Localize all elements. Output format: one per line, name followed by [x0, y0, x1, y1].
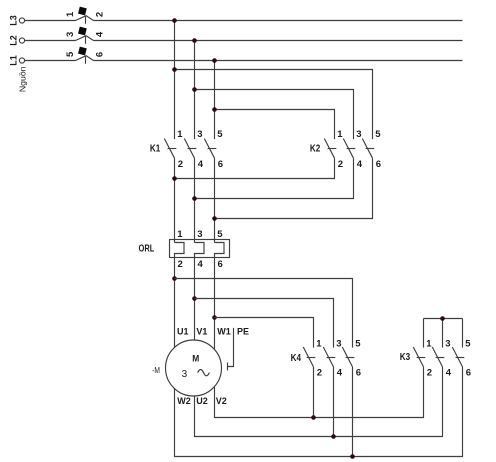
svg-text:6: 6	[356, 367, 361, 378]
svg-text:3: 3	[65, 32, 76, 37]
svg-text:L2: L2	[9, 35, 19, 46]
wire PE stub	[228, 328, 234, 367]
svg-text:K3: K3	[400, 352, 411, 363]
breaker pole 3-4 (L2)	[25, 27, 106, 44]
svg-text:6: 6	[95, 52, 106, 57]
wire W2 bus	[175, 367, 463, 457]
svg-text:6: 6	[218, 259, 223, 270]
svg-text:5: 5	[217, 229, 223, 240]
svg-text:M: M	[192, 353, 199, 364]
svg-text:1: 1	[316, 339, 322, 350]
contact K1 pole 1 (pins 1-2)	[164, 129, 183, 170]
wire L3 rail	[94, 20, 463, 22]
node V2/K4	[311, 415, 316, 420]
wire K2 pole3 output merge	[215, 158, 373, 218]
wire K2 pole1 output merge	[175, 158, 335, 178]
svg-text:5: 5	[465, 339, 471, 350]
svg-text:K4: K4	[291, 353, 302, 364]
svg-text:W1: W1	[217, 327, 231, 337]
svg-text:1: 1	[177, 229, 183, 240]
node motor feed V1	[192, 296, 197, 301]
svg-text:1: 1	[337, 129, 343, 140]
svg-text:4: 4	[198, 259, 204, 270]
svg-text:3: 3	[445, 339, 450, 350]
svg-text:5: 5	[217, 129, 223, 140]
node L2 tap	[192, 38, 197, 43]
svg-text:Nguồn: Nguồn	[18, 66, 28, 92]
svg-text:6: 6	[218, 159, 223, 170]
contact K4 pole 2 (pins 3-4)	[323, 339, 343, 379]
wire U2 bus	[195, 367, 443, 437]
svg-text:ORL: ORL	[139, 244, 155, 255]
motor sine symbol	[198, 369, 210, 375]
svg-text:K2: K2	[310, 144, 321, 155]
svg-text:6: 6	[376, 159, 381, 170]
node K3 star	[440, 316, 445, 321]
wire L3 branch to K2	[175, 70, 373, 140]
wire K4 pole2 to U2 bus	[333, 367, 335, 437]
svg-text:5: 5	[65, 51, 76, 57]
wire K3 pin1 feed	[423, 319, 425, 348]
svg-text:4: 4	[446, 367, 452, 378]
svg-text:2: 2	[338, 159, 343, 170]
svg-text:V1: V1	[196, 327, 207, 337]
wire L2 branch to K2	[195, 90, 354, 140]
terminal L1	[9, 55, 25, 66]
node K2 feed	[212, 107, 217, 112]
svg-text:2: 2	[95, 12, 106, 17]
contact K3 pole 1 (pins 1-2)	[413, 339, 432, 379]
motor frame terminal	[227, 363, 229, 371]
motor M circle	[166, 340, 222, 396]
node L1 tap	[212, 58, 217, 63]
ORL heater pole 3 (pins 5-6)	[215, 229, 225, 350]
wire L3 drop to K1	[174, 21, 176, 140]
breaker pole 5-6 (L1)	[25, 47, 106, 64]
svg-text:5: 5	[375, 129, 381, 140]
contact K3 pole 2 (pins 3-4)	[432, 339, 452, 379]
contact K2 pole 1 (pins 1-2)	[324, 129, 343, 170]
svg-text:K1: K1	[150, 144, 161, 155]
svg-text:5: 5	[355, 339, 361, 350]
contact K4 pole 1 (pins 1-2)	[303, 339, 322, 379]
node K1/K2 output 1	[172, 176, 177, 181]
wire K3 pin5 feed	[462, 319, 464, 348]
wire L2 rail	[94, 40, 463, 42]
svg-text:L1: L1	[9, 55, 19, 66]
wire L1 rail	[94, 60, 463, 62]
ORL heater pole 1 (pins 1-2)	[175, 229, 185, 348]
svg-text:PE: PE	[237, 327, 249, 337]
wire V1 branch to K4	[195, 299, 334, 348]
svg-text:6: 6	[466, 367, 471, 378]
wire K1 pole2 output to ORL	[194, 158, 196, 242]
wire V2 bus	[215, 367, 424, 418]
node L3 tap	[172, 18, 177, 23]
svg-text:3: 3	[356, 129, 361, 140]
ORL heater pole 2 (pins 3-4)	[195, 229, 205, 340]
node K1/K2 output 3	[212, 216, 217, 221]
terminal L3	[9, 15, 25, 26]
svg-text:3: 3	[197, 129, 202, 140]
svg-text:U2: U2	[196, 396, 208, 406]
svg-text:U1: U1	[177, 327, 189, 337]
wire K1 pole3 output to ORL	[214, 158, 216, 242]
contact K1 pole 3 (pins 5-6)	[204, 129, 223, 170]
node K1/K2 output 2	[192, 196, 197, 201]
wire W1 branch to K4	[215, 318, 314, 348]
svg-text:2: 2	[317, 367, 322, 378]
svg-text:1: 1	[177, 129, 183, 140]
wire K4 pole1 to V2 bus	[313, 367, 315, 418]
terminal L2	[9, 35, 25, 46]
wire K3 star bar	[424, 318, 463, 320]
svg-text:4: 4	[95, 31, 106, 37]
breaker pole 1-2 (L3)	[25, 7, 106, 24]
contact K2 pole 3 (pins 5-6)	[362, 129, 381, 170]
wire L1 drop to K1	[214, 61, 216, 140]
node U2/K4	[331, 434, 336, 439]
svg-text:3: 3	[182, 369, 188, 380]
contact K3 pole 3 (pins 5-6)	[452, 339, 471, 379]
wire K1 pole1 output to ORL	[174, 158, 176, 242]
overload relay ORL box	[170, 240, 230, 258]
wire L1 branch to K2	[215, 110, 335, 140]
svg-text:-M: -M	[152, 366, 160, 375]
svg-text:W2: W2	[177, 396, 191, 406]
node W2/K4	[350, 454, 355, 459]
wire K4 pole3 to W2 bus	[352, 367, 354, 457]
wire U1 branch to K4	[175, 279, 353, 348]
svg-text:2: 2	[427, 367, 432, 378]
svg-text:1: 1	[426, 339, 432, 350]
svg-text:1: 1	[65, 11, 76, 17]
node motor feed U1	[172, 276, 177, 281]
svg-text:2: 2	[178, 259, 183, 270]
wire K3 pin3 feed	[442, 319, 444, 348]
svg-text:2: 2	[178, 159, 183, 170]
node K2 feed	[192, 87, 197, 92]
svg-text:3: 3	[336, 339, 341, 350]
svg-text:V2: V2	[216, 396, 227, 406]
svg-text:4: 4	[337, 367, 343, 378]
svg-text:4: 4	[198, 159, 204, 170]
svg-text:L3: L3	[9, 15, 19, 26]
node motor feed W1	[212, 315, 217, 320]
wire L2 drop to K1	[194, 41, 196, 140]
svg-text:4: 4	[357, 159, 363, 170]
contact K2 pole 2 (pins 3-4)	[343, 129, 363, 170]
contact K1 pole 2 (pins 3-4)	[184, 129, 204, 170]
node K2 feed	[172, 67, 177, 72]
svg-text:3: 3	[197, 229, 202, 240]
contact K4 pole 3 (pins 5-6)	[342, 339, 361, 379]
wire K2 pole2 output merge	[195, 158, 354, 198]
